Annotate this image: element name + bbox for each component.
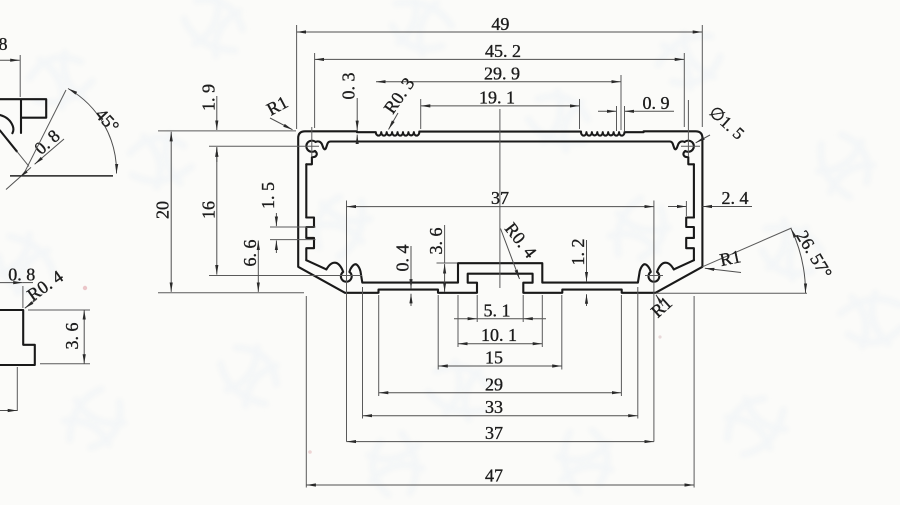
top-right boss centerline xyxy=(687,100,689,156)
bottom extension ray right xyxy=(656,292,808,294)
svg-text:5. 1: 5. 1 xyxy=(484,301,511,321)
dim 47 extension lines xyxy=(305,296,307,488)
svg-text:1. 5: 1. 5 xyxy=(258,182,278,209)
detail A bottom edge xyxy=(10,175,113,177)
detail A angle dim 45deg xyxy=(25,90,66,172)
pink specks xyxy=(83,286,87,290)
bottom-left boss centerline vertical xyxy=(346,201,348,442)
dim 3.6 extension line xyxy=(437,262,458,264)
svg-text:1. 2: 1. 2 xyxy=(568,239,588,266)
extension line bottom left xyxy=(158,292,304,294)
detail B dim 3.6 xyxy=(28,309,90,311)
center hat channel xyxy=(458,263,542,282)
left wall notch upper xyxy=(306,218,314,238)
svg-text:2. 4: 2. 4 xyxy=(722,188,749,208)
dim 29.9 extension line right xyxy=(620,75,622,130)
svg-text:0. 9: 0. 9 xyxy=(643,93,670,113)
bottom-right boss axis crosshair xyxy=(645,275,663,277)
svg-text:0. 8: 0. 8 xyxy=(8,264,35,284)
top-left boss centerline xyxy=(311,127,313,157)
dim 29 extension lines xyxy=(378,295,380,396)
interior floor right xyxy=(542,282,638,284)
dim 49 extension lines xyxy=(296,25,298,129)
inner ceiling xyxy=(331,140,670,142)
svg-text:29. 9: 29. 9 xyxy=(484,63,520,83)
extension line bottom boss axis left xyxy=(209,275,362,277)
svg-text:0. 4: 0. 4 xyxy=(393,245,413,272)
svg-text:3. 6: 3. 6 xyxy=(426,228,446,255)
svg-text:20: 20 xyxy=(153,201,173,219)
profile outer outline with bottom slot and hat cavity xyxy=(298,131,702,292)
svg-text:29: 29 xyxy=(485,374,503,394)
chamfer extension line xyxy=(702,228,791,267)
svg-text:R1: R1 xyxy=(718,246,743,270)
detail A dim line top xyxy=(0,59,20,61)
svg-text:49: 49 xyxy=(491,14,509,34)
dim 10.1 extension lines xyxy=(457,295,459,347)
vertical centerline xyxy=(499,109,501,288)
right inner wall xyxy=(638,164,694,282)
bottom-right boss centerline vertical xyxy=(653,201,655,442)
extension line boss axis left xyxy=(209,145,319,147)
svg-text:47: 47 xyxy=(485,466,503,486)
dim 5.1 extension lines xyxy=(476,295,478,322)
svg-text:33: 33 xyxy=(485,397,503,417)
detail A curved rib xyxy=(0,115,13,133)
interior floor left xyxy=(362,282,458,284)
detail B bottom width dim extension xyxy=(16,367,18,411)
left inner chamfer xyxy=(306,260,326,269)
left wall notch lower xyxy=(306,238,314,260)
svg-text:6. 6: 6. 6 xyxy=(240,239,260,266)
svg-text:19. 1: 19. 1 xyxy=(479,88,515,108)
detail A chamfer edge 45deg xyxy=(0,131,17,152)
top-right screw port boss xyxy=(670,141,694,165)
dim 45.2 extension lines xyxy=(314,53,316,128)
bottom-right screw boss xyxy=(638,263,674,283)
top-left screw port boss xyxy=(306,141,330,165)
svg-text:3. 6: 3. 6 xyxy=(62,323,82,350)
detail A stepped block xyxy=(0,99,46,133)
svg-text:16: 16 xyxy=(198,201,218,219)
svg-text:15: 15 xyxy=(485,348,503,368)
detail B outline xyxy=(0,310,35,365)
bottom-left screw boss xyxy=(326,263,362,283)
svg-text:10. 1: 10. 1 xyxy=(481,325,517,345)
angle dim 26.57 arc xyxy=(791,229,806,294)
dim 19.1 extension lines xyxy=(420,99,422,129)
svg-text:37: 37 xyxy=(485,423,503,443)
left inner wall xyxy=(305,164,307,217)
extension line top surface left xyxy=(158,130,296,132)
dim 1.5 extension lines xyxy=(270,226,316,228)
svg-text:8: 8 xyxy=(0,34,8,54)
svg-text:45. 2: 45. 2 xyxy=(485,41,521,61)
dim 15 extension lines xyxy=(437,295,439,370)
svg-text:1. 9: 1. 9 xyxy=(198,84,218,111)
top-right boss axis crosshair xyxy=(681,145,700,147)
svg-text:37: 37 xyxy=(491,188,509,208)
dim 33 extension lines xyxy=(362,287,364,419)
dim 2.4 extension line xyxy=(685,201,687,216)
svg-text:0. 3: 0. 3 xyxy=(339,73,359,100)
